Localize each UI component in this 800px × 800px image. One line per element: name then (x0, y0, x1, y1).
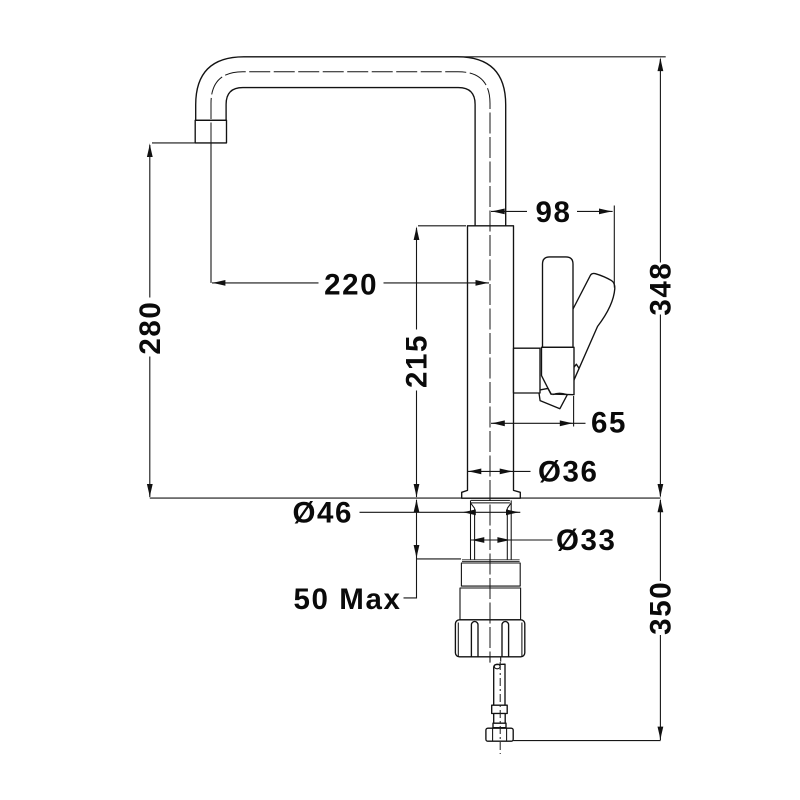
svg-text:348: 348 (645, 262, 678, 316)
svg-text:65: 65 (591, 407, 627, 440)
svg-text:50 Max: 50 Max (294, 583, 402, 616)
svg-text:Ø33: Ø33 (556, 524, 617, 557)
svg-text:350: 350 (645, 581, 678, 635)
svg-text:280: 280 (134, 301, 167, 355)
svg-text:215: 215 (400, 334, 433, 388)
svg-text:Ø46: Ø46 (293, 497, 354, 530)
svg-text:220: 220 (324, 268, 378, 301)
svg-text:98: 98 (535, 196, 571, 229)
svg-text:Ø36: Ø36 (538, 456, 599, 489)
